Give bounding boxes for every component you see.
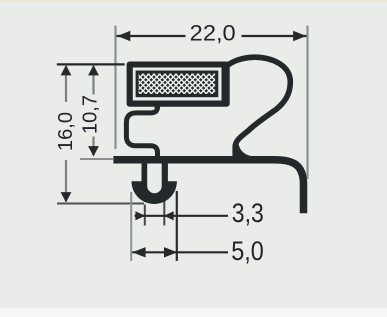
C-channel below pocket — [126, 104, 157, 159]
dimension line 5,0 with leader — [132, 251, 228, 253]
base flange and lip — [113, 160, 303, 213]
arrow 5,0 left (pointing left) — [132, 247, 145, 257]
arrow 16,0 up — [61, 65, 72, 75]
dimension line 3,3 with leader — [135, 215, 229, 217]
extension line bottom-left horizontal (mushroom bottom level) — [57, 203, 144, 205]
svg-text:10,7: 10,7 — [79, 95, 101, 134]
top cream strip — [0, 0, 387, 2]
arrow 10,7 up — [88, 65, 99, 75]
extension line right (22,0) — [306, 26, 308, 180]
extension line base-left horizontal (10,7 bottom) — [80, 158, 113, 160]
bulb-base fillet — [238, 141, 254, 156]
dimension line 16,0 — [65, 65, 67, 102]
svg-text:3,3: 3,3 — [232, 198, 264, 228]
extension line L2 (3,3 left) — [144, 205, 146, 226]
pocket inner cavity — [133, 68, 222, 101]
extension line L1 (5,0 left) — [130, 192, 132, 261]
pocket-bottom stub — [155, 103, 161, 108]
dimension line 10,7 — [92, 65, 94, 95]
arrow 22,0 left — [117, 31, 130, 41]
extension line top-left horizontal (pocket top level) — [57, 63, 125, 65]
extension line L3 (3,3 right) — [163, 196, 165, 226]
bulb loop — [228, 57, 291, 157]
barb anchor (stem + mushroom head) — [132, 160, 177, 204]
bottom white strip — [0, 308, 387, 317]
arrow 3,3 right (pointing left) — [164, 211, 174, 220]
dimension line 22,0 — [117, 35, 186, 37]
arrow 5,0 right (pointing right) — [164, 247, 177, 257]
arrow 16,0 down — [61, 192, 72, 202]
magnet block border — [136, 71, 219, 98]
svg-text:22,0: 22,0 — [190, 20, 236, 45]
extension line left (22,0) — [114, 26, 116, 150]
arrow 22,0 right — [293, 31, 306, 41]
profile: magnet pocket outer wall — [127, 62, 230, 107]
arrow 10,7 down — [88, 146, 99, 156]
extension line L4 (5,0 right) — [176, 191, 178, 261]
svg-text:5,0: 5,0 — [231, 236, 263, 266]
svg-text:16,0: 16,0 — [55, 112, 77, 151]
magnet crosshatch — [139, 74, 216, 94]
arrow 3,3 left (pointing right) — [135, 211, 145, 220]
